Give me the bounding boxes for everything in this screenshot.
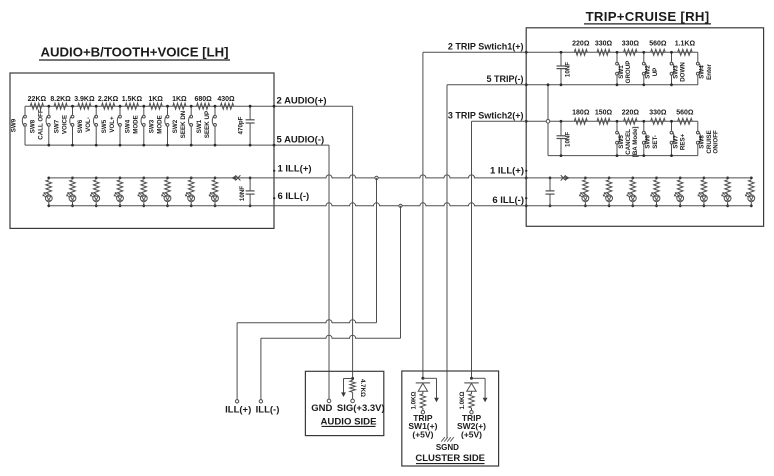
svg-text:1KΩ: 1KΩ <box>148 96 163 103</box>
svg-text:8.2KΩ: 8.2KΩ <box>50 96 71 103</box>
svg-text:SW6: SW6 <box>645 135 652 149</box>
svg-text:10NF: 10NF <box>565 132 572 147</box>
svg-text:ILL(-): ILL(-) <box>256 404 280 415</box>
svg-text:SW9: SW9 <box>11 118 18 132</box>
svg-text:470pF: 470pF <box>238 116 245 134</box>
svg-text:Enter: Enter <box>706 64 713 80</box>
svg-text:1 ILL(+): 1 ILL(+) <box>490 165 524 176</box>
svg-text:1.1KΩ: 1.1KΩ <box>675 41 696 48</box>
svg-text:SW4: SW4 <box>699 65 706 79</box>
svg-text:MODE: MODE <box>133 115 140 134</box>
svg-text:3 TRIP Swtich2(+): 3 TRIP Swtich2(+) <box>448 110 524 120</box>
svg-text:CLUSTER SIDE: CLUSTER SIDE <box>415 453 485 464</box>
svg-text:SW3: SW3 <box>148 119 155 133</box>
svg-text:180Ω: 180Ω <box>572 110 590 117</box>
svg-text:220Ω: 220Ω <box>572 41 590 48</box>
svg-text:5 AUDIO(-): 5 AUDIO(-) <box>277 135 325 146</box>
svg-text:2.2KΩ: 2.2KΩ <box>98 96 119 103</box>
svg-text:SW5: SW5 <box>101 119 108 133</box>
svg-text:SW2: SW2 <box>645 65 652 79</box>
svg-text:SET-: SET- <box>652 135 659 149</box>
svg-text:SW3: SW3 <box>672 65 679 79</box>
svg-text:GND: GND <box>311 403 332 414</box>
svg-text:680Ω: 680Ω <box>194 96 212 103</box>
svg-text:(+5V): (+5V) <box>461 430 482 440</box>
svg-text:SW8: SW8 <box>30 119 37 133</box>
svg-text:SW1: SW1 <box>618 65 625 79</box>
svg-text:560Ω: 560Ω <box>649 41 667 48</box>
svg-text:SGND: SGND <box>436 443 459 452</box>
svg-text:SW7: SW7 <box>672 135 679 149</box>
svg-text:10NF: 10NF <box>239 186 246 201</box>
svg-text:SEEK DN: SEEK DN <box>180 110 187 138</box>
svg-text:1.0KΩ: 1.0KΩ <box>410 391 417 409</box>
svg-text:MODE: MODE <box>156 115 163 134</box>
svg-text:SIG(+3.3V): SIG(+3.3V) <box>337 403 385 414</box>
svg-text:1 ILL(+): 1 ILL(+) <box>278 163 312 174</box>
svg-text:6 ILL(-): 6 ILL(-) <box>278 191 310 202</box>
svg-text:330Ω: 330Ω <box>595 41 613 48</box>
svg-text:1KΩ: 1KΩ <box>172 96 187 103</box>
svg-text:VOICE: VOICE <box>61 115 68 134</box>
svg-text:SW7: SW7 <box>53 119 60 133</box>
svg-text:GROUP: GROUP <box>625 61 632 84</box>
svg-text:UP: UP <box>652 68 659 77</box>
svg-text:5 TRIP(-): 5 TRIP(-) <box>487 74 524 84</box>
svg-text:TRIP+CRUISE [RH]: TRIP+CRUISE [RH] <box>586 9 710 24</box>
svg-text:DOWN: DOWN <box>680 62 687 82</box>
svg-text:2 AUDIO(+): 2 AUDIO(+) <box>277 96 327 107</box>
svg-text:SW8: SW8 <box>699 135 706 149</box>
svg-text:VOL-: VOL- <box>85 117 92 132</box>
svg-text:VOL+: VOL+ <box>109 116 116 133</box>
svg-text:150Ω: 150Ω <box>595 110 613 117</box>
svg-text:1.0KΩ: 1.0KΩ <box>459 391 466 409</box>
svg-text:330Ω: 330Ω <box>622 41 640 48</box>
svg-text:560Ω: 560Ω <box>676 110 694 117</box>
svg-text:[BA Mode]: [BA Mode] <box>632 127 639 158</box>
svg-text:10NF: 10NF <box>565 62 572 77</box>
svg-text:ILL(+): ILL(+) <box>225 404 251 415</box>
svg-text:4.7KΩ: 4.7KΩ <box>359 379 366 397</box>
svg-text:2 TRIP Swtich1(+): 2 TRIP Swtich1(+) <box>448 41 524 51</box>
svg-text:6 ILL(-): 6 ILL(-) <box>492 195 524 206</box>
svg-text:(+5V): (+5V) <box>412 430 433 440</box>
svg-text:ON/OFF: ON/OFF <box>713 130 720 154</box>
svg-text:AUDIO+B/TOOTH+VOICE [LH]: AUDIO+B/TOOTH+VOICE [LH] <box>40 45 228 60</box>
svg-text:SW5: SW5 <box>618 135 625 149</box>
svg-text:CALL OFF: CALL OFF <box>38 109 45 140</box>
svg-text:3.9KΩ: 3.9KΩ <box>74 96 95 103</box>
svg-text:SW6: SW6 <box>77 119 84 133</box>
svg-text:SW4: SW4 <box>125 119 132 133</box>
svg-text:22KΩ: 22KΩ <box>28 96 47 103</box>
svg-text:SW2: SW2 <box>172 119 179 133</box>
svg-text:1.5KΩ: 1.5KΩ <box>122 96 143 103</box>
svg-text:SEEK UP: SEEK UP <box>204 111 211 138</box>
svg-text:220Ω: 220Ω <box>622 110 640 117</box>
svg-text:SW1: SW1 <box>196 119 203 133</box>
svg-text:RES+: RES+ <box>680 133 687 150</box>
svg-text:330Ω: 330Ω <box>649 110 667 117</box>
svg-text:430Ω: 430Ω <box>217 96 235 103</box>
